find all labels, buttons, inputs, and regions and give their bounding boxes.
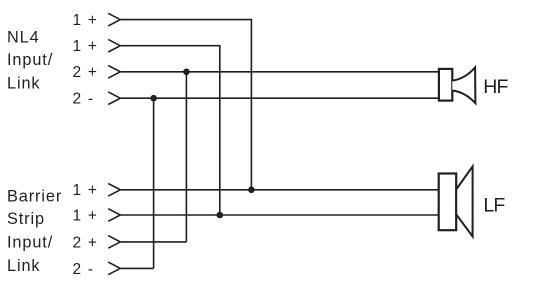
wire NL4 1+ (second) horizontal to x=219.8 then down to Barrier second 1+ row [120,46,220,215]
wire Barrier 2- horizontal to vertical riser [120,267,153,269]
node junction dot on NL4 2+ at x=186.4 [183,69,190,76]
svg-text:NL4Input/Link: NL4Input/Link [7,29,53,93]
wire Barrier 1+ (second) horizontal to LF driver [120,214,439,216]
svg-text:LF: LF [483,195,505,217]
wire Barrier 2+ horizontal to vertical riser [120,241,186,243]
terminal NL4 pin 2- with chevron [73,91,121,108]
terminal Barrier pin 1+ (top) with chevron [73,182,121,199]
wire NL4 2+ horizontal to HF driver [120,71,439,73]
LF cone [456,166,472,236]
terminal NL4 pin 2+ with chevron [73,64,121,81]
wire Barrier 1+ (top) horizontal to LF driver [120,189,439,191]
svg-text:1 +: 1 + [73,38,97,55]
svg-text:2 -: 2 - [73,261,94,278]
wire NL4 2- horizontal to HF driver [120,97,439,99]
terminal Barrier pin 2+ with chevron [73,234,121,251]
wire NL4 1+ (top) horizontal to x=251.4 then down to Barrier 1+ row [120,20,251,190]
svg-text:2 +: 2 + [73,234,97,251]
HF horn bell [452,67,475,103]
svg-text:2 +: 2 + [73,64,97,81]
svg-text:1 +: 1 + [73,12,97,29]
node junction dot on Barrier 1+ (top) at x=251.4 [248,187,255,194]
LF driver rectangle [439,174,457,231]
svg-text:2 -: 2 - [73,91,94,108]
HF driver rectangle [439,69,452,101]
wire vertical from NL4 2+ junction down to Barrier 2+ row [185,72,187,242]
terminal Barrier pin 1+ (second) with chevron [73,207,121,224]
svg-text:1 +: 1 + [73,207,97,224]
svg-text:HF: HF [483,76,508,98]
terminal NL4 pin 1+ (second) with chevron [73,38,121,55]
svg-text:1 +: 1 + [73,182,97,199]
node junction dot on Barrier 1+ (second) at x=219.8 [217,212,224,219]
svg-text:BarrierStripInput/Link: BarrierStripInput/Link [7,187,62,275]
wire vertical from NL4 2- junction down to Barrier 2- row [153,98,155,268]
terminal NL4 pin 1+ (top) with chevron [73,12,121,29]
terminal Barrier pin 2- with chevron [73,261,121,278]
node junction dot on NL4 2- at x=153.6 [150,95,157,102]
